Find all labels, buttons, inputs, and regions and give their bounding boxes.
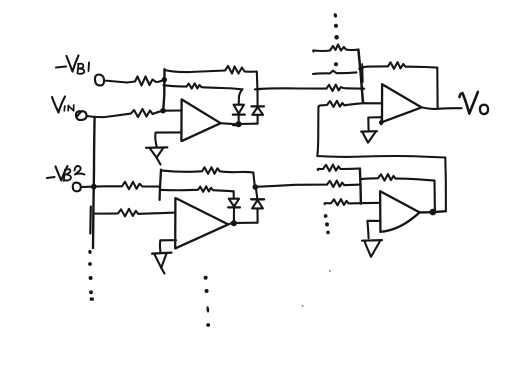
- wire N2 to summer1: [258, 85, 365, 91]
- wire summing bus U3: [358, 50, 363, 103]
- ground G1: [146, 147, 167, 164]
- wire U3 plus lead stub: [380, 117, 382, 125]
- op-amp U2: [175, 198, 228, 248]
- dots ellipsis VIN bus continuation: [88, 250, 94, 301]
- resistor R4 (VIN input): [87, 109, 163, 117]
- wire summing bus U4: [360, 169, 361, 204]
- resistor R9 (summer1 minus lead): [318, 101, 381, 107]
- wire feedback drop to node N2b: [253, 173, 255, 187]
- resistor R7 (diode branch U2): [160, 186, 234, 191]
- op-amp U3: [382, 84, 422, 122]
- wire N2b to summer2: [256, 181, 360, 187]
- label -VB1: [56, 56, 89, 74]
- op-amp U1: [181, 99, 220, 140]
- label -VB2: [47, 166, 85, 181]
- wire VIN bus vertical: [93, 117, 95, 248]
- wire summing bus U2: [160, 170, 161, 200]
- wire plus input U3: [368, 117, 381, 130]
- wire VIN bus retrace (doubled stroke): [89, 207, 92, 234]
- node D (bus crossing blob): [91, 184, 97, 190]
- resistor R8 (summer1 top input): [313, 45, 358, 52]
- diode D1: [233, 105, 245, 123]
- dots ellipsis above summer1: [334, 13, 339, 39]
- ground G3: [361, 131, 377, 142]
- label VO: [460, 92, 489, 114]
- diode D3: [228, 199, 240, 223]
- terminal VB1: [95, 75, 104, 86]
- dots ellipsis below U2 output: [204, 276, 211, 327]
- wire feedback drop U4: [433, 181, 435, 211]
- ground G4: [362, 240, 382, 257]
- resistor R12 (summer2 minus lead): [325, 199, 380, 205]
- wire plus input U1: [155, 132, 181, 147]
- resistor R5 (-VB2 input): [81, 182, 160, 190]
- node N2 (corner to summer): [255, 88, 261, 90]
- wire minus input U2 (from VIN bus): [94, 209, 175, 217]
- node F (plus lead blob U3): [379, 120, 384, 125]
- terminal VB2: [73, 183, 81, 192]
- resistor R3 (diode branch U1): [164, 83, 242, 89]
- wire U3 output to Vo: [422, 107, 462, 109]
- wire summing bus U3 retrace: [361, 64, 364, 82]
- wire link summer2 output to R9: [317, 107, 318, 155]
- diode D4: [251, 188, 264, 223]
- dot between summer1 inputs: [334, 62, 338, 66]
- node E (U2 output junction, filled): [231, 220, 237, 226]
- wire feedback drop U3: [436, 68, 438, 108]
- resistor R11 (summer2 top input): [318, 165, 360, 172]
- node B (U1 output junction, filled): [236, 121, 242, 127]
- wire drop right to summer2 output: [444, 158, 447, 211]
- wire U1 output: [221, 123, 236, 124]
- wire link line (summer2 output up to summer1 input): [317, 156, 445, 158]
- resistor R1 (-VB1 input): [104, 77, 164, 86]
- dots ellipsis below summer2 input: [324, 214, 330, 234]
- node G (U4 output, filled): [430, 209, 437, 216]
- wire feedback drop to node N2: [256, 72, 259, 89]
- label VIN: [52, 97, 74, 113]
- wire plus input U4: [367, 221, 379, 238]
- wire minus input U1: [163, 109, 181, 111]
- ground G2: [152, 253, 172, 274]
- wire U4 output junction: [420, 211, 446, 212]
- wire U2 output: [228, 222, 231, 225]
- wire output node to D4: [234, 222, 258, 224]
- wire summing bus U1: [163, 69, 164, 111]
- wire drop to diode D1: [239, 89, 243, 104]
- resistor R13 (feedback U4): [361, 174, 435, 181]
- node N2b (junction, filled): [253, 184, 259, 190]
- resistor R6 (feedback U2): [161, 167, 253, 174]
- diode D2: [252, 89, 264, 123]
- resistor R2 (feedback U1): [165, 66, 257, 74]
- speck dots: [302, 270, 331, 307]
- node A (junction -VB1/bus): [162, 77, 167, 82]
- op-amp U4: [380, 191, 420, 232]
- wire drop to diode D3: [233, 191, 235, 198]
- wire output node to D2: [239, 123, 258, 126]
- terminal VIN: [76, 111, 87, 120]
- node C (junction VIN/minus input): [160, 108, 166, 114]
- resistor R10 (feedback U3): [359, 62, 437, 69]
- wire plus input U2: [160, 240, 176, 253]
- wire summer1 second input: [313, 71, 357, 74]
